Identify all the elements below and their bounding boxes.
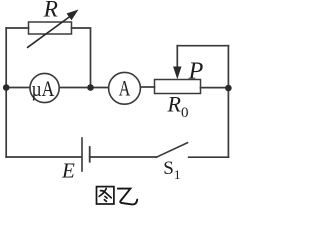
wire top branch left — [6, 27, 28, 29]
wire battery to switch — [90, 156, 157, 158]
wire switch to right — [189, 156, 229, 158]
caption yi (second) — [118, 189, 137, 205]
resistor R0 (potentiometer body) — [155, 80, 201, 94]
svg-text:E: E — [61, 159, 75, 183]
svg-text:µA: µA — [32, 76, 55, 101]
node junction right — [225, 85, 232, 92]
wire top branch right — [72, 28, 91, 88]
wire bottom left — [6, 156, 82, 158]
switch S1 blade — [156, 143, 187, 158]
ammeter A body — [109, 72, 141, 104]
node junction left — [3, 84, 10, 91]
ammeter uA (microammeter body) — [30, 73, 59, 102]
wire main row left — [6, 87, 29, 89]
wiper arrowhead P — [173, 67, 181, 80]
node junction middle — [87, 84, 94, 91]
caption tu (figure) — [97, 187, 114, 204]
wire R0 to right node — [201, 87, 229, 89]
wire wiper stem — [176, 46, 178, 68]
resistor R (rheostat body) — [29, 22, 72, 34]
svg-text:R: R — [43, 0, 58, 22]
battery E long plate — [81, 138, 83, 171]
svg-text:P: P — [188, 58, 204, 84]
wire left vertical — [5, 28, 7, 157]
svg-text:1: 1 — [174, 167, 181, 182]
svg-text:R: R — [167, 92, 182, 117]
battery E short plate — [89, 147, 91, 162]
wire A to R0 — [141, 86, 155, 88]
wire right vertical — [227, 46, 229, 157]
rheostat arrow — [27, 10, 79, 48]
svg-text:S: S — [163, 158, 174, 179]
svg-text:A: A — [119, 76, 131, 101]
wire between meters — [59, 87, 108, 89]
svg-text:0: 0 — [181, 105, 189, 121]
wire wiper top to right — [177, 45, 228, 47]
